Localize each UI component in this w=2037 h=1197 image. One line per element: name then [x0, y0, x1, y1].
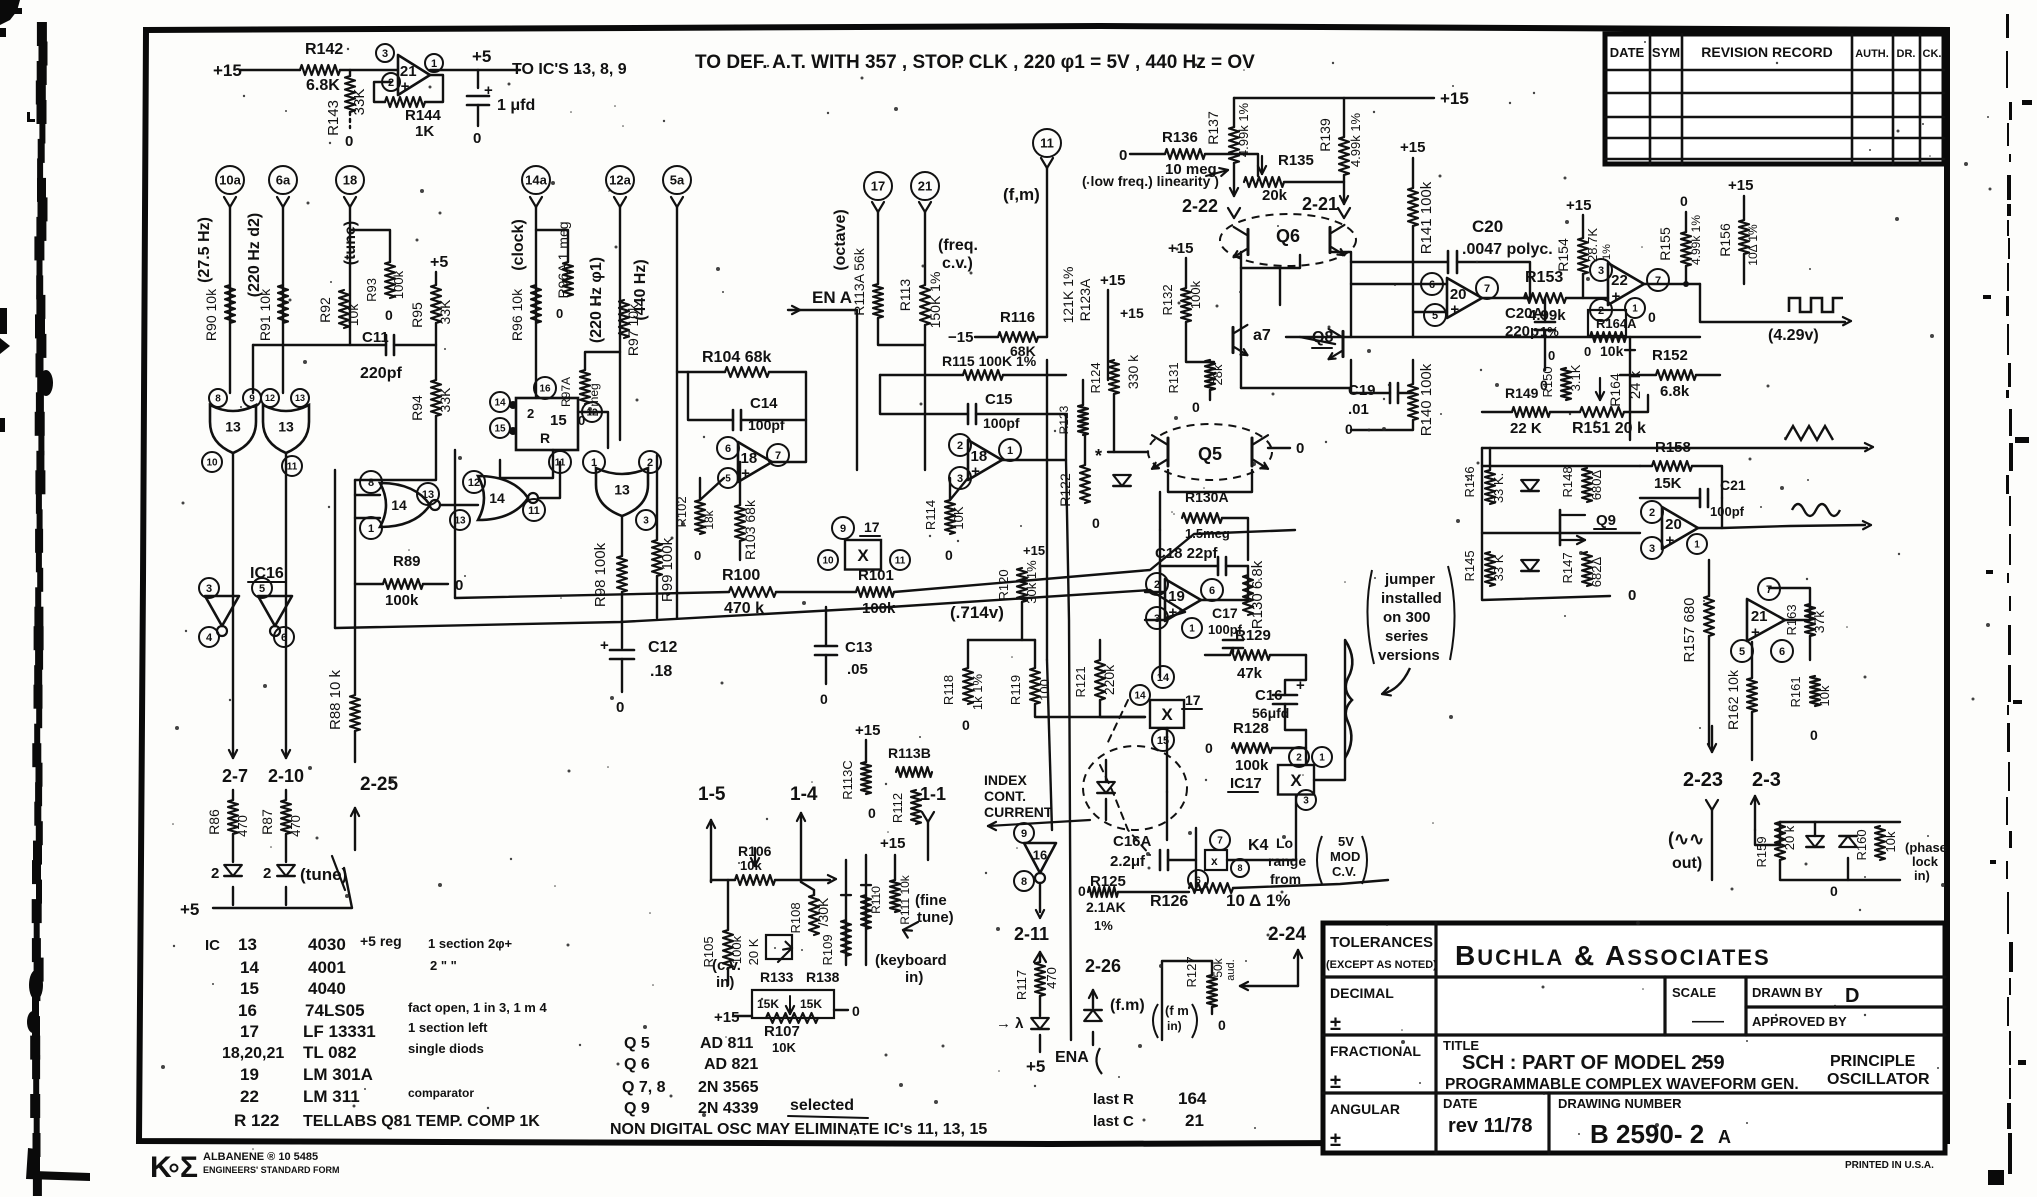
svg-text:R149: R149	[1505, 385, 1539, 401]
fm paren r	[1192, 1004, 1197, 1038]
wire R120 col	[1021, 602, 1023, 640]
resistor R131	[1205, 360, 1215, 390]
svg-text:R98 100k: R98 100k	[592, 542, 609, 607]
svg-text:AD 811: AD 811	[700, 1035, 753, 1052]
svg-text:C14: C14	[750, 395, 778, 412]
svg-text:R123A: R123A	[1077, 278, 1093, 321]
svg-text:on 300: on 300	[1383, 609, 1431, 626]
svg-text:+: +	[1169, 604, 1178, 621]
wire norA to norB	[441, 504, 478, 506]
wire multC col	[1305, 730, 1307, 765]
wire R149-R151 join	[1550, 411, 1580, 413]
svg-text:2-22: 2-22	[1182, 196, 1218, 216]
svg-text:R132: R132	[1160, 284, 1175, 315]
svg-text:14: 14	[489, 490, 505, 506]
svg-text:13: 13	[422, 489, 434, 501]
pin K4 pin 8	[1231, 859, 1249, 877]
svg-text:6a: 6a	[276, 173, 291, 188]
svg-text:last R: last R	[1093, 1091, 1134, 1108]
svg-text:in): in)	[716, 974, 734, 991]
wire square out wire	[1700, 284, 1845, 322]
svg-text:R111 10k: R111 10k	[898, 874, 912, 925]
resistor R89	[383, 579, 423, 589]
svg-text:R163: R163	[1784, 604, 1799, 635]
resistor R132	[1181, 288, 1191, 322]
svg-text:R128: R128	[1233, 720, 1269, 737]
wire R89 right	[423, 583, 448, 585]
inverter IC16 inverter C	[1024, 843, 1056, 873]
svg-text:R113: R113	[897, 279, 913, 312]
svg-text:+15: +15	[1728, 177, 1753, 194]
svg-text:±: ±	[1330, 1129, 1341, 1151]
svg-text:TELLABS Q81 TEMP. COMP 1K: TELLABS Q81 TEMP. COMP 1K	[303, 1113, 540, 1130]
resistor R113C	[861, 762, 871, 794]
K4 box a	[1205, 850, 1227, 870]
svg-text:10k: 10k	[1817, 685, 1832, 706]
connector 2-22 conn	[1228, 208, 1234, 218]
resistor R139	[1339, 137, 1349, 175]
wire R111 col	[894, 855, 896, 880]
pin connector 18	[336, 166, 364, 194]
wire 2-25 stem	[354, 808, 356, 850]
wire U22 out	[1644, 283, 1700, 285]
svg-text:TITLE: TITLE	[1443, 1038, 1479, 1053]
wire bus B left	[455, 592, 729, 598]
pin pin 2 U22	[1590, 299, 1612, 321]
svg-text:14: 14	[1134, 691, 1146, 702]
junction pin15 dot	[509, 427, 517, 435]
resistor R98	[617, 556, 627, 592]
svg-text:R137: R137	[1205, 111, 1221, 145]
svg-text:C15: C15	[985, 391, 1013, 408]
wire index diode wires	[1105, 760, 1107, 782]
svg-text:0: 0	[1628, 587, 1636, 604]
Q9 underline	[1594, 528, 1616, 530]
resistor R123	[1078, 405, 1088, 435]
svg-text:0: 0	[1548, 348, 1555, 363]
resistor R148	[1582, 468, 1592, 502]
transistor Q5 left half	[1167, 438, 1170, 466]
svg-text:B 2590- 2: B 2590- 2	[1590, 1119, 1704, 1149]
svg-text:100k: 100k	[1235, 757, 1269, 774]
svg-text:3: 3	[1303, 796, 1309, 807]
pin pin 11 mult	[890, 550, 910, 570]
wire R123A col	[1107, 290, 1109, 380]
svg-text:2 " ": 2 " "	[430, 958, 457, 973]
wire R153 leads	[1524, 297, 1530, 299]
resistor R164A	[1590, 332, 1626, 342]
svg-text:0: 0	[945, 547, 953, 563]
pin pin 1 U20b	[1687, 534, 1707, 554]
svg-text:0: 0	[1345, 421, 1353, 437]
op-amp U20b	[1662, 507, 1698, 549]
resistor R160	[1875, 826, 1885, 860]
pin pin 1 multC	[1312, 747, 1332, 767]
svg-text:470: 470	[235, 815, 250, 837]
svg-text:in): in)	[905, 969, 923, 986]
resistor R162	[1747, 678, 1757, 712]
svg-text:1: 1	[1007, 445, 1013, 457]
svg-text:±: ±	[1330, 1013, 1341, 1035]
pin pin 3 U20b	[1641, 537, 1663, 559]
wire R157 down	[1708, 636, 1710, 746]
wire Q7Q8 bottom	[1241, 360, 1351, 388]
resistor R137	[1229, 127, 1239, 163]
fine tune arrow	[903, 929, 912, 932]
svg-text:8: 8	[215, 394, 221, 405]
junction pin14 dot	[509, 401, 517, 409]
svg-text:6: 6	[281, 632, 287, 644]
svg-text:+: +	[1666, 532, 1675, 549]
wire R127 frame	[1162, 961, 1212, 1040]
wire R119 col	[1034, 640, 1036, 668]
svg-text:2: 2	[1649, 507, 1655, 519]
op-amp U21 regulator	[398, 55, 430, 95]
capacitor C21	[1699, 489, 1702, 507]
scan artifact right specks	[2022, 100, 2032, 105]
lowfreq arrow	[1206, 170, 1228, 176]
resistor R107	[766, 1013, 818, 1023]
svg-text:220p: 220p	[1505, 323, 1539, 340]
svg-text:R156: R156	[1717, 223, 1733, 257]
svg-text:CURRENT: CURRENT	[984, 804, 1053, 820]
1-4 arrowhead	[801, 813, 805, 821]
wire R125 right	[1118, 891, 1189, 893]
wire C22 lead	[477, 70, 479, 88]
svg-text:12a: 12a	[609, 173, 631, 188]
resistor R115	[963, 370, 1003, 380]
svg-text:10Δ 1%: 10Δ 1%	[1746, 224, 1760, 266]
svg-text:C20A: C20A	[1505, 305, 1544, 322]
svg-text:4.99k 1%: 4.99k 1%	[1348, 112, 1363, 167]
connector 17 stem	[872, 202, 878, 212]
svg-text:12: 12	[265, 393, 275, 403]
pin pin 6 inv	[274, 627, 294, 647]
gate IC13 gate B	[263, 405, 309, 453]
wire C16 down	[1285, 704, 1306, 730]
svg-text:4001: 4001	[308, 958, 346, 977]
svg-text:+15: +15	[1440, 89, 1469, 108]
resistor R136	[1165, 149, 1205, 159]
wire D7 wires	[1814, 822, 1816, 836]
svg-text:R120: R120	[996, 569, 1011, 600]
pin pin 3 U19	[1146, 607, 1168, 629]
svg-text:+15: +15	[1120, 305, 1144, 321]
wire R156 down	[1743, 254, 1745, 284]
svg-text:K4: K4	[1248, 837, 1269, 854]
svg-text:(phase: (phase	[1905, 840, 1947, 855]
svg-text:R87: R87	[259, 809, 275, 835]
capacitor C15	[967, 404, 970, 424]
resistor R96A	[563, 262, 573, 296]
resistor R121	[1095, 660, 1105, 700]
svg-text:+: +	[401, 78, 410, 95]
resistor R140	[1408, 384, 1418, 420]
svg-text:DATE: DATE	[1443, 1096, 1478, 1111]
svg-text:AD 821: AD 821	[704, 1056, 758, 1073]
wire R114 top	[950, 478, 968, 500]
wire R158 right	[1692, 466, 1722, 498]
pin pin 13b	[291, 389, 309, 407]
scan artifact small L mark	[27, 112, 35, 122]
svg-text:(freq.: (freq.	[938, 237, 978, 254]
svg-text:R 122: R 122	[234, 1111, 279, 1130]
jumper arrow	[1382, 668, 1410, 694]
wire 10a column	[229, 207, 231, 393]
svg-text:EN A: EN A	[812, 288, 852, 307]
wire C20A wires	[1544, 298, 1546, 322]
wire 11 column b	[1046, 360, 1048, 660]
resistor R109 zig	[841, 920, 851, 956]
2-22 arrowhead	[1230, 188, 1234, 196]
svg-text:18,20,21: 18,20,21	[222, 1045, 284, 1062]
capacitor C16	[1273, 694, 1297, 697]
capacitor C20A	[1535, 321, 1555, 324]
wire C17 down	[1232, 648, 1234, 652]
resistor R101	[856, 587, 894, 597]
wire Q6 collectors box	[1241, 252, 1300, 268]
wire R104 frame	[677, 371, 725, 373]
wire R109 col	[845, 860, 847, 965]
svg-text:R141 100k: R141 100k	[1418, 181, 1435, 254]
20K arrow	[783, 948, 792, 950]
pin pin 13 norB2	[450, 510, 470, 530]
resistor R163	[1805, 604, 1815, 636]
pin pin 7 U22	[1647, 269, 1669, 291]
resistor R142	[300, 65, 340, 75]
svg-text:R106: R106	[738, 843, 772, 859]
svg-text:BUCHLA & ASSOCIATES: BUCHLA & ASSOCIATES	[1455, 940, 1771, 971]
selected underline	[788, 1116, 868, 1118]
IC16 underline	[248, 581, 285, 583]
svg-text:X: X	[857, 546, 869, 565]
svg-text:5: 5	[1739, 646, 1745, 658]
svg-text:in): in)	[1167, 1019, 1182, 1033]
wire R140 col	[1412, 360, 1414, 384]
sine out arrowhead	[1863, 525, 1871, 529]
wire R99 down	[656, 576, 658, 618]
svg-text:(f,m): (f,m)	[1003, 185, 1040, 204]
wire R126 right	[1233, 880, 1388, 888]
svg-text:0: 0	[1078, 883, 1086, 899]
pin pin 10 mult	[818, 550, 838, 570]
svg-text:19: 19	[1168, 588, 1185, 605]
svg-text:R93: R93	[364, 278, 379, 302]
svg-text:10K: 10K	[772, 1040, 796, 1055]
wire R132 down	[1186, 322, 1214, 362]
svg-text:FRACTIONAL: FRACTIONAL	[1330, 1043, 1421, 1059]
svg-text:AUTH.: AUTH.	[1855, 48, 1889, 60]
svg-text:R97A: R97A	[559, 377, 573, 407]
svg-text:SCALE: SCALE	[1672, 985, 1716, 1000]
svg-text:100pf: 100pf	[983, 415, 1020, 431]
capacitor C20	[1447, 251, 1450, 273]
wire gate A out	[232, 453, 234, 758]
svg-text:x: x	[1211, 854, 1218, 868]
wire phase area top	[1755, 822, 1780, 845]
resistor R110	[861, 884, 871, 886]
resistor R97A	[580, 370, 590, 404]
svg-text:TO DEF. A.T. WITH 357 , S: TO DEF. A.T. WITH 357 , STOP CLK , 220 φ…	[695, 52, 1255, 73]
svg-text:10k: 10k	[345, 303, 361, 327]
resistor R110 zig	[861, 895, 871, 929]
connector 18 stem	[344, 197, 350, 207]
svg-text:21: 21	[1185, 1111, 1204, 1130]
svg-text:tune): tune)	[917, 909, 954, 926]
wire gatebox right	[454, 450, 456, 598]
svg-text:0: 0	[1584, 344, 1591, 359]
wire 11 column	[1046, 168, 1048, 337]
connector 2-23 conn	[1706, 800, 1712, 810]
svg-text:jumper: jumper	[1384, 571, 1435, 588]
wire R118 top	[968, 639, 1035, 641]
1-5 arrowhead	[711, 820, 715, 828]
sawtooth symbol	[1785, 426, 1833, 440]
wire C16A wire	[1168, 859, 1196, 861]
svg-text:c.v.): c.v.)	[942, 255, 973, 272]
svg-text:2N 3565: 2N 3565	[698, 1079, 759, 1096]
wire C15 frame	[880, 375, 968, 414]
svg-text:4: 4	[206, 632, 213, 644]
wire C13 top	[825, 607, 827, 646]
svg-text:0: 0	[616, 699, 624, 716]
scan artifact bottom-right square	[1988, 1170, 2004, 1185]
svg-text:CONT.: CONT.	[984, 788, 1026, 804]
resistor R152	[1656, 370, 1696, 380]
wire 12a branch	[585, 352, 620, 370]
resistor R87	[281, 800, 291, 834]
pin pin 16 IC15	[534, 377, 556, 399]
wire Q5 emitters	[1168, 470, 1252, 492]
svg-text:2-24: 2-24	[1268, 924, 1306, 945]
svg-text:Q 7, 8: Q 7, 8	[622, 1079, 666, 1096]
wire R118 col	[967, 640, 969, 668]
svg-text:R119: R119	[1008, 675, 1023, 705]
resistor R108	[809, 895, 819, 935]
2-25 arrowhead up	[355, 808, 359, 816]
wire norA feed	[355, 416, 436, 480]
wire Q8 base link	[1300, 337, 1335, 344]
pin connector 6a	[269, 166, 297, 194]
wire 21 column lower	[924, 325, 926, 470]
wire R136 left	[1130, 153, 1165, 155]
wire ENA col	[1066, 460, 1071, 1040]
svg-text:8: 8	[1237, 863, 1242, 873]
resistor R106	[735, 875, 775, 885]
svg-text:17: 17	[864, 519, 880, 535]
pin pin 6 U18a	[717, 437, 739, 459]
svg-text:(∿∿: (∿∿	[1668, 829, 1704, 849]
svg-text:*: *	[1095, 446, 1102, 466]
pin pin 5 inv	[252, 578, 272, 598]
wire R95 lead	[435, 272, 437, 285]
svg-text:13: 13	[295, 393, 305, 403]
pin pin 15 multB	[1152, 729, 1174, 751]
wire U20a in bot	[1413, 311, 1447, 313]
svg-text:PROGRAMMABLE COMPLEX WAVEFOR: PROGRAMMABLE COMPLEX WAVEFORM GEN.	[1445, 1076, 1799, 1093]
wire C18 right	[1226, 565, 1248, 567]
wire index diode wires2	[1105, 799, 1107, 820]
gate A out arrowhead	[229, 750, 233, 758]
svg-text:IC17: IC17	[1230, 775, 1262, 792]
svg-text:R164A: R164A	[1596, 316, 1637, 331]
wire 1-4 stem	[800, 813, 802, 882]
wire R110 col	[865, 855, 867, 965]
resistor R157	[1704, 596, 1714, 636]
wire saw out wire	[1482, 447, 1867, 449]
pin pin 13 nor	[417, 483, 439, 505]
square out arrowhead	[1843, 321, 1851, 325]
pin pin 12 IC15	[582, 402, 602, 422]
wire R95 to R94	[435, 323, 437, 380]
svg-text:1k 1%: 1k 1%	[970, 673, 985, 710]
2-3 arrowhead	[1755, 796, 1759, 804]
wire multC down	[1295, 795, 1297, 860]
capacitor C22 1ufd	[467, 95, 489, 98]
svg-text:installed: installed	[1381, 590, 1442, 607]
wire Q7 Q8 left col	[1240, 268, 1242, 388]
wire U21 feedback	[425, 75, 443, 102]
junction U22 out dot	[1683, 281, 1689, 287]
pin pin 6 U20a	[1421, 273, 1443, 295]
gate IC14 gate A	[380, 483, 430, 527]
pin K4 pin 6	[1188, 870, 1208, 890]
resistor R94	[431, 380, 441, 416]
Q9 fet	[1559, 510, 1562, 545]
wire C13 gnd	[825, 655, 827, 684]
resistor R111	[890, 880, 900, 912]
svg-text:20: 20	[1665, 516, 1682, 533]
svg-text:3: 3	[643, 516, 649, 527]
svg-text:R152: R152	[1652, 347, 1688, 364]
transistor Q6 left half	[1247, 229, 1250, 254]
svg-text:330 k: 330 k	[1125, 354, 1141, 389]
op-amp U19	[1165, 579, 1201, 621]
wire R122 col	[1084, 435, 1086, 465]
svg-text:1: 1	[1632, 304, 1638, 315]
connector 5a stem	[671, 197, 677, 207]
svg-text:13: 13	[614, 481, 630, 497]
wire U19 inputs2	[1145, 619, 1165, 621]
svg-text:18: 18	[343, 173, 357, 188]
wire multC right	[1314, 640, 1345, 780]
svg-text:R160: R160	[1854, 829, 1869, 860]
svg-text:C11: C11	[362, 329, 389, 346]
svg-text:6: 6	[1779, 646, 1785, 658]
wire C20 left	[1351, 261, 1448, 263]
svg-text:19: 19	[240, 1065, 259, 1084]
svg-text:1 meg: 1 meg	[587, 383, 601, 416]
svg-text:single diods: single diods	[408, 1041, 484, 1056]
wire R107 right	[834, 1009, 848, 1011]
resistor R118	[963, 668, 973, 704]
svg-text:1 section 2φ+: 1 section 2φ+	[428, 936, 512, 951]
transistor Q8	[1342, 331, 1345, 356]
wire Q6 inner vertical	[1279, 268, 1281, 305]
multiplier U17a multiplier	[845, 540, 881, 570]
title block grid	[1323, 923, 1945, 1153]
wire R146 hang	[1489, 448, 1491, 470]
svg-text:682Δ: 682Δ	[1589, 556, 1604, 587]
svg-text:+: +	[1450, 301, 1459, 318]
R106 out arrow	[828, 879, 836, 883]
svg-text:R164: R164	[1607, 373, 1623, 407]
svg-text:1 section left: 1 section left	[408, 1020, 488, 1035]
svg-text:R126: R126	[1150, 893, 1188, 910]
2-26 arrowhead	[1093, 990, 1097, 998]
resistor R145	[1485, 552, 1495, 586]
svg-text:(EXCEPT AS NOTED): (EXCEPT AS NOTED)	[1326, 959, 1437, 971]
